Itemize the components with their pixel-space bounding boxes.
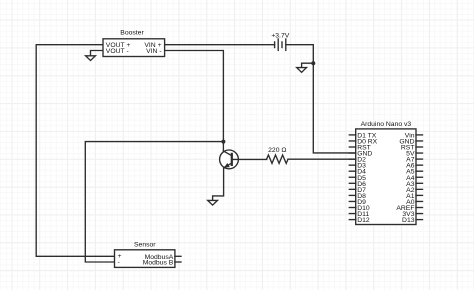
battery BT1 +3.7V [275, 39, 286, 50]
wire VOUT- to ground [91, 51, 104, 56]
wire VIN- down to collector node [165, 51, 224, 152]
Booster box U1 [103, 39, 165, 57]
Arduino right pin stubs [416, 135, 423, 220]
wire J2 to ground [302, 63, 314, 67]
Sensor right pin stubs [175, 255, 181, 257]
wire base to resistor [232, 158, 267, 160]
wire resistor to Arduino D2 [288, 158, 356, 160]
svg-text:D13: D13 [402, 217, 415, 224]
svg-text:+3.7V: +3.7V [271, 33, 289, 40]
wire collector node to Sensor - [85, 142, 223, 262]
ground G2 [297, 68, 307, 73]
node J2 junction dot [311, 61, 315, 65]
wire emitter to ground [213, 168, 224, 201]
Arduino left pin stubs [349, 135, 355, 220]
ground G3 [208, 200, 218, 205]
node J1 junction dot [221, 140, 225, 144]
wire battery to Arduino GND [286, 45, 356, 153]
ground G1 [86, 56, 96, 61]
svg-text:220 Ω: 220 Ω [268, 147, 286, 154]
svg-text:Sensor: Sensor [134, 242, 156, 249]
svg-text:D12: D12 [357, 217, 370, 224]
wire VIN+ to battery [165, 44, 275, 46]
svg-text:VOUT -: VOUT - [106, 48, 129, 55]
svg-text:-: - [118, 259, 120, 266]
svg-text:VIN -: VIN - [146, 48, 161, 55]
svg-text:Modbus B: Modbus B [143, 260, 174, 267]
Sensor box U3 [115, 250, 175, 268]
svg-text:Arduino Nano v3: Arduino Nano v3 [361, 121, 412, 128]
transistor Q1 [220, 150, 239, 169]
resistor R1 220 ohm [267, 155, 288, 163]
wire VOUT+ to Sensor + [36, 45, 114, 257]
Arduino Nano v3 box U2 [356, 129, 416, 225]
svg-text:Booster: Booster [120, 29, 144, 36]
